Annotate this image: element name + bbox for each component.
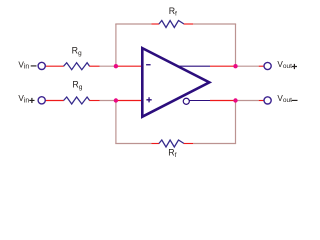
- wire: Vin+ terminal to Rg (red): [45, 100, 64, 102]
- junction dot node A: [114, 64, 118, 68]
- resistor Rf (bottom) zigzag: [159, 140, 184, 147]
- resistor Rg (bottom) zigzag: [64, 97, 90, 104]
- wire: bottom feedback loop horizontal left (rosy): [115, 143, 151, 145]
- junction dot node D: [233, 98, 237, 102]
- resistor Rg (top) zigzag: [64, 63, 90, 70]
- wire: op-amp output+ stub (navy): [177, 65, 210, 67]
- terminal circle Vout-: [264, 97, 271, 104]
- wire: node B to op-amp non-inverting input (red): [116, 100, 143, 102]
- wire: top feedback loop left vertical: [115, 24, 117, 66]
- wire: top Rf right red lead: [184, 23, 194, 25]
- op-amp inverted output bubble: [183, 98, 189, 104]
- label Vin- minus dash: [31, 65, 37, 66]
- wire: top feedback loop horizontal right (rosy): [193, 23, 236, 25]
- wire: bottom feedback loop right vertical: [235, 101, 237, 144]
- wire: Rg right red lead (top): [89, 65, 99, 67]
- wire: lead to node A (rosy): [100, 65, 116, 67]
- wire: bottom Rf left red lead: [151, 143, 159, 145]
- junction dot node B: [114, 98, 118, 102]
- wire: node C toward terminal (rosy): [236, 65, 259, 67]
- wire: output+ to node C (red): [210, 65, 236, 67]
- terminal circle Vin-: [38, 62, 45, 69]
- wire: output- to node D (red): [210, 100, 236, 102]
- wire: Vin- terminal to Rg (red): [45, 65, 64, 67]
- wire: op-amp output- stub from bubble (navy): [189, 100, 210, 102]
- wire: top feedback loop horizontal left (rosy): [115, 23, 151, 25]
- wire: red lead to Vout+ terminal: [259, 65, 264, 67]
- wire: node D toward terminal (rosy): [236, 100, 259, 102]
- wire: bottom feedback loop horizontal right (rosy): [193, 143, 236, 145]
- label Vout- minus dash: [292, 100, 298, 101]
- op-amp non-inverting input plus sign: [146, 97, 151, 102]
- wire: lead to node B (rosy): [100, 100, 116, 102]
- label Vin+ plus sign: [29, 98, 34, 103]
- wire: bottom feedback loop left vertical: [115, 101, 117, 144]
- junction dot node C: [233, 64, 237, 68]
- terminal circle Vin+: [38, 97, 45, 104]
- label Vout+ plus sign: [292, 64, 297, 69]
- wire: red lead to Vout- terminal: [259, 100, 264, 102]
- wire: Rg right red lead (bottom): [89, 100, 99, 102]
- wire: top Rf left red lead: [151, 23, 159, 25]
- resistor Rf (top) zigzag: [159, 21, 184, 28]
- wire: top feedback loop right vertical: [235, 24, 237, 66]
- op-amp U1 triangle body: [142, 48, 209, 117]
- wire: bottom Rf right red lead: [184, 143, 194, 145]
- terminal circle Vout+: [264, 62, 271, 69]
- wire: node A to op-amp inverting input (red): [116, 65, 143, 67]
- op-amp inverting input minus sign: [146, 64, 151, 65]
